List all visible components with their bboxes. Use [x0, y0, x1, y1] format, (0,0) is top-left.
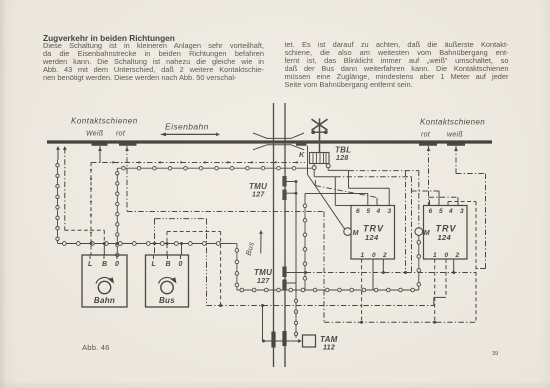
- svg-text:weiß: weiß: [447, 132, 463, 139]
- svg-text:2: 2: [455, 252, 460, 259]
- svg-text:Weiß: Weiß: [86, 131, 103, 138]
- relay box TAM 112: [303, 335, 316, 347]
- wire: K contact diagonal to TRV1 motor: [307, 168, 309, 174]
- relay box TRV 124 at x=423.5: [424, 206, 468, 260]
- terminal stubs Bus: [181, 244, 183, 256]
- wire: dash-dot diagonal to TRV1 t4: [314, 180, 316, 186]
- svg-text:Eisenbahn: Eisenbahn: [165, 122, 209, 132]
- svg-text:2: 2: [382, 252, 387, 259]
- wire: chain down to Bahn 0: [116, 168, 118, 255]
- wire: bridge link Bus B to right drop: [167, 231, 221, 233]
- svg-text:5: 5: [439, 208, 443, 215]
- svg-text:124: 124: [365, 233, 379, 242]
- wire: TRV1 t2 down: [382, 259, 384, 273]
- wire hop joining TRV2 t0: [433, 297, 435, 305]
- wire: TBL right pin to TRV1 t3: [327, 168, 329, 171]
- svg-text:0: 0: [115, 261, 119, 268]
- contact strips for TAM: [271, 332, 275, 348]
- svg-text:TMU: TMU: [254, 268, 272, 277]
- svg-text:L: L: [88, 261, 93, 268]
- svg-text:3: 3: [388, 208, 392, 215]
- relay box TRV 124 at x=351: [351, 206, 395, 260]
- wire: track feeder left (chain): [56, 146, 60, 150]
- blinker unit TBL 128: [310, 153, 330, 164]
- svg-text:1: 1: [433, 252, 437, 259]
- contact strip TMU 127 lower: [282, 267, 286, 278]
- caption Abb. 46: [82, 343, 110, 352]
- wire: TRV2 t1 down: [434, 259, 436, 322]
- wire: TRV2 t0 down: [445, 259, 447, 297]
- wire: road right edge: [284, 103, 286, 367]
- terminal stubs Bahn: [103, 244, 105, 256]
- svg-text:M: M: [424, 230, 430, 237]
- svg-text:6: 6: [356, 208, 360, 215]
- svg-text:0: 0: [372, 252, 376, 259]
- svg-text:4: 4: [448, 208, 453, 215]
- wire: TMU to TRV1 t5: [305, 193, 368, 195]
- wire: chain bus corner down: [231, 243, 237, 245]
- wire: road left edge: [273, 103, 275, 367]
- wire: TRV2 t5 up-left: [438, 191, 440, 206]
- svg-text:Bahn: Bahn: [94, 296, 115, 305]
- contact rail weiss (right): [447, 143, 465, 145]
- svg-text:Kontaktschienen: Kontaktschienen: [420, 118, 485, 127]
- wire: rot contact down and across: [125, 147, 129, 151]
- svg-text:M: M: [353, 230, 359, 237]
- wire: inter-box vertical 1: [349, 170, 419, 172]
- motor terminal M: [344, 228, 352, 236]
- wire: TRV2 t2 down: [453, 259, 455, 273]
- svg-text:127: 127: [257, 278, 270, 285]
- wire: TRV1 t1 down: [361, 259, 363, 322]
- svg-text:Kontaktschienen: Kontaktschienen: [71, 117, 138, 126]
- wire: Bahn B link from track feeder: [65, 229, 105, 231]
- svg-text:TRV: TRV: [363, 224, 384, 234]
- wire: drop to TAM feed: [262, 306, 264, 342]
- svg-text:6: 6: [429, 208, 433, 215]
- heading + left text column: [43, 35, 264, 82]
- transformer box Bahn: [82, 255, 127, 307]
- motor terminal M: [415, 228, 423, 236]
- svg-text:0: 0: [179, 261, 183, 268]
- wire: bus y=272.5: [306, 272, 477, 274]
- contact strip TMU 127 upper: [282, 176, 286, 187]
- svg-text:TAM: TAM: [320, 335, 338, 344]
- svg-text:B: B: [166, 261, 171, 268]
- blinker signal (Andreaskreuz) on pole: [319, 119, 321, 153]
- wire: railway track main line: [47, 140, 492, 143]
- label Bus with arrow (road direction): [260, 232, 262, 254]
- contact rail rot (left): [119, 143, 137, 145]
- wire: rot branch to TRV2 t3: [429, 196, 459, 198]
- svg-text:1: 1: [361, 252, 365, 259]
- svg-text:L: L: [152, 261, 157, 268]
- svg-text:112: 112: [323, 345, 335, 352]
- contact rail K (at crossing): [296, 143, 307, 145]
- svg-text:127: 127: [252, 192, 265, 199]
- svg-text:TRV: TRV: [436, 224, 457, 234]
- svg-text:5: 5: [367, 208, 371, 215]
- svg-text:124: 124: [438, 233, 452, 242]
- svg-text:4: 4: [376, 208, 381, 215]
- wire: TRV2 t6 stub: [429, 200, 431, 206]
- svg-text:0: 0: [445, 252, 449, 259]
- wire: TBL left pin to TRV1 t6: [313, 170, 315, 177]
- wire: track feeder left 2 (dash-dot): [63, 146, 67, 150]
- wire: inter-box vertical 2: [335, 176, 411, 178]
- svg-text:rot: rot: [421, 132, 431, 139]
- page number 39: [492, 351, 498, 357]
- svg-text:Bus: Bus: [159, 296, 175, 305]
- svg-text:B: B: [102, 261, 107, 268]
- transformer box Bus: [146, 255, 189, 307]
- wire: K contact line (dash-dot with ticks): [91, 162, 305, 164]
- svg-text:TMU: TMU: [249, 182, 267, 191]
- TBL pins: [313, 164, 315, 166]
- svg-text:Bus: Bus: [244, 241, 256, 257]
- svg-text:rot: rot: [116, 131, 126, 138]
- wire: TRV2 t3 up to right vertical: [447, 202, 449, 206]
- wire: main chain bus: [58, 243, 231, 245]
- wire: rot (right) down to TRV2 t6: [427, 147, 431, 151]
- wire: feed down to TRV2 motor M: [418, 171, 420, 229]
- svg-text:3: 3: [460, 208, 464, 215]
- wire: TRV1 t0 down to chain: [372, 259, 374, 290]
- right text column: [285, 41, 509, 88]
- wire: chain line to blinker: [117, 167, 308, 169]
- wire: weiss contact down: [98, 147, 102, 151]
- wire: bridge link Bus L to right drop: [155, 218, 207, 220]
- wire: dashed to Bahn L: [90, 163, 92, 256]
- svg-text:128: 128: [336, 155, 349, 162]
- contact rail weiss (left): [92, 143, 108, 145]
- svg-text:K: K: [299, 150, 305, 159]
- wire: TAM feed: [264, 340, 301, 342]
- wire: weiss (right) down and around: [454, 147, 458, 151]
- svg-text:TBL: TBL: [335, 146, 351, 155]
- contact rail rot (right): [419, 143, 437, 145]
- wire: M2 chain to road: [418, 235, 420, 290]
- level-crossing flare marks: [253, 133, 267, 138]
- wire: bus y=303.5: [207, 305, 434, 307]
